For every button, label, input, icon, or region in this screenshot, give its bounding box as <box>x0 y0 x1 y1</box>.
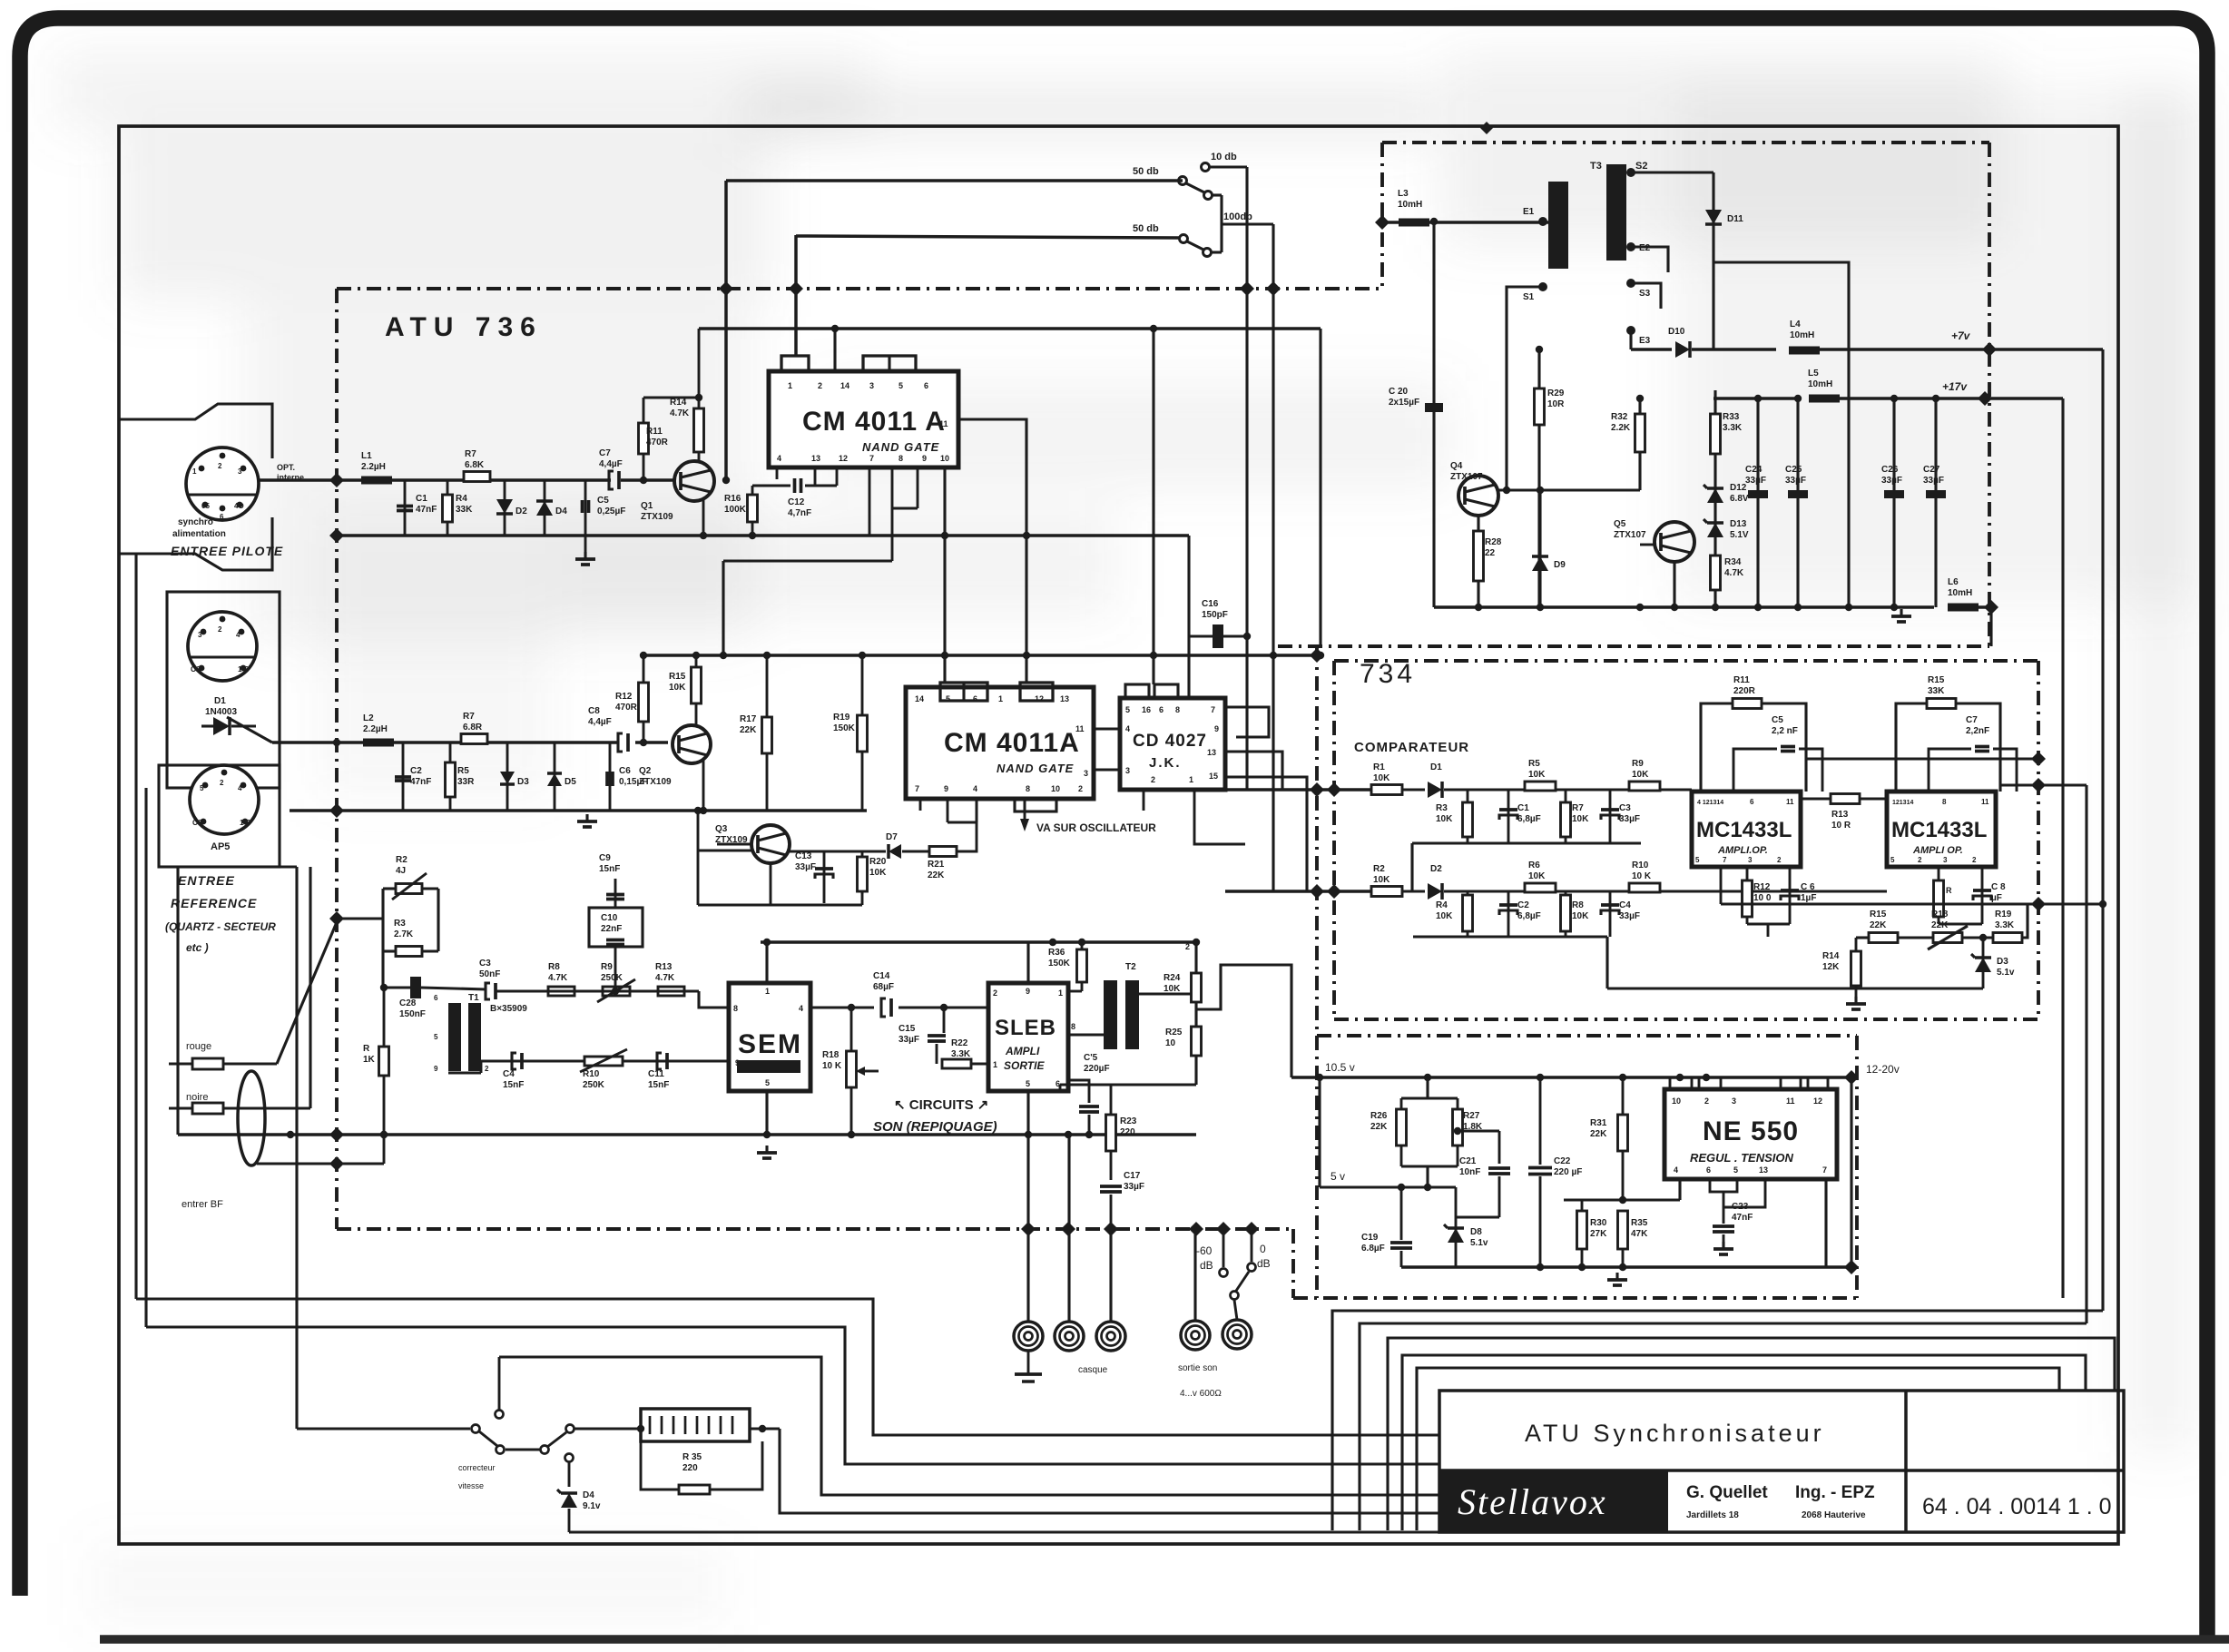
svg-text:8: 8 <box>1942 798 1947 806</box>
svg-text:11: 11 <box>1075 724 1085 733</box>
svg-text:6.8µF: 6.8µF <box>1361 1244 1385 1254</box>
svg-text:REGUL . TENSION: REGUL . TENSION <box>1690 1151 1793 1165</box>
svg-text:1: 1 <box>192 467 197 476</box>
inductor L4 10mH <box>1789 347 1820 355</box>
svg-text:10K: 10K <box>1528 871 1546 881</box>
wire y836 to right <box>1806 757 2038 760</box>
svg-text:R6: R6 <box>1528 860 1540 870</box>
svg-text:R19: R19 <box>1995 910 2012 919</box>
svg-text:R4: R4 <box>456 494 467 504</box>
svg-text:ZTX109: ZTX109 <box>641 512 673 522</box>
svg-text:D10: D10 <box>1668 327 1685 337</box>
capacitor C2 47nF <box>402 742 405 811</box>
vertical bus x1407 lower <box>1272 655 1274 891</box>
diode D2 <box>504 480 506 536</box>
svg-text:R5: R5 <box>457 766 469 776</box>
svg-text:22K: 22K <box>1590 1129 1607 1139</box>
capacitor C13 33uF <box>823 851 826 903</box>
svg-text:15nF: 15nF <box>648 1080 669 1090</box>
svg-text:2.7K: 2.7K <box>394 929 414 939</box>
svg-text:C2: C2 <box>1517 900 1529 910</box>
capacitor C3 50nF <box>486 983 490 999</box>
resistor R3 2.7K <box>383 949 396 952</box>
capacitor C5 2.2nF (734) <box>1733 749 1777 792</box>
potentiometer R18 10K (SEM) <box>850 1008 853 1051</box>
resistor R35 220 parallel <box>641 1441 679 1490</box>
svg-text:dB: dB <box>1200 1259 1213 1272</box>
resistor R29 10R <box>1537 349 1540 607</box>
svg-text:D1: D1 <box>1430 762 1442 772</box>
svg-text:Ing. - EPZ: Ing. - EPZ <box>1795 1483 1875 1502</box>
svg-text:22K: 22K <box>1870 920 1887 930</box>
resistor R7 6.8K <box>464 472 490 482</box>
DIN connector 2 with D1 <box>167 592 280 788</box>
svg-text:3: 3 <box>1943 856 1948 864</box>
svg-text:C 20: C 20 <box>1389 387 1409 397</box>
svg-text:100K: 100K <box>724 505 747 515</box>
svg-text:3: 3 <box>238 467 242 476</box>
svg-text:10K: 10K <box>1572 814 1589 824</box>
svg-text:D4: D4 <box>583 1490 594 1500</box>
svg-text:10: 10 <box>1672 1096 1681 1106</box>
svg-text:10mH: 10mH <box>1398 200 1422 210</box>
attenuator verticals to card <box>1245 167 1248 790</box>
row wire y1169 <box>448 1072 481 1075</box>
svg-text:1N4003: 1N4003 <box>205 707 237 717</box>
svg-text:6,8µF: 6,8µF <box>1517 911 1541 921</box>
comparator row1 wire <box>1225 788 1371 792</box>
svg-text:33µF: 33µF <box>898 1035 919 1045</box>
svg-text:10K: 10K <box>1572 911 1589 921</box>
svg-text:L5: L5 <box>1808 369 1819 379</box>
svg-text:2: 2 <box>485 1065 489 1073</box>
svg-text:470R: 470R <box>646 438 669 447</box>
svg-text:VA SUR OSCILLATEUR: VA SUR OSCILLATEUR <box>1036 821 1156 834</box>
svg-text:Q1: Q1 <box>641 501 653 511</box>
resistor R17 22K <box>766 655 769 811</box>
svg-text:D3: D3 <box>517 777 529 787</box>
diamond at L3 <box>1375 215 1389 230</box>
T3 terminal dots <box>1538 217 1547 226</box>
svg-text:D12: D12 <box>1730 483 1747 493</box>
resistor R14 12K <box>1855 938 1858 951</box>
svg-text:R 35: R 35 <box>682 1452 702 1462</box>
svg-text:1 O: 1 O <box>240 819 251 827</box>
wire bus y362 <box>699 327 1321 330</box>
svg-text:NAND GATE: NAND GATE <box>862 440 939 454</box>
vertical x800 to ch1 rail <box>724 181 728 480</box>
svg-text:64 . 04 . 0014 1 . 0: 64 . 04 . 0014 1 . 0 <box>1922 1494 2112 1519</box>
svg-text:L4: L4 <box>1790 320 1801 329</box>
resistor R1 10K <box>1371 785 1402 795</box>
svg-text:10K: 10K <box>1164 984 1181 994</box>
svg-text:9.1v: 9.1v <box>583 1501 601 1511</box>
svg-text:5: 5 <box>200 784 204 792</box>
svg-text:6: 6 <box>434 994 438 1002</box>
svg-text:250K: 250K <box>583 1080 605 1090</box>
svg-text:50 db: 50 db <box>1133 166 1159 177</box>
wire y865 to right <box>2000 783 2087 786</box>
svg-text:4: 4 <box>799 1004 803 1013</box>
svg-text:13: 13 <box>1207 748 1216 757</box>
svg-text:1 O: 1 O <box>238 665 250 674</box>
svg-text:10 db: 10 db <box>1211 152 1237 162</box>
svg-text:10K: 10K <box>1373 773 1390 783</box>
svg-text:rouge: rouge <box>186 1041 211 1052</box>
capacitor C6 0.15uF <box>609 742 612 811</box>
svg-text:3.3K: 3.3K <box>951 1049 971 1059</box>
resistor R8 10K (734) <box>1565 891 1567 937</box>
svg-text:NE 550: NE 550 <box>1703 1116 1799 1146</box>
ground regulator rail <box>1615 1273 1618 1280</box>
resistor R24 10K <box>1194 942 1197 973</box>
svg-text:C11: C11 <box>648 1069 664 1079</box>
svg-text:12: 12 <box>839 454 848 463</box>
svg-text:6.8R: 6.8R <box>463 723 483 733</box>
resistor R22 3.3K <box>942 1059 971 1068</box>
svg-text:2: 2 <box>220 779 224 787</box>
svg-text:3.3K: 3.3K <box>1723 423 1743 433</box>
svg-text:5.1v: 5.1v <box>1470 1238 1488 1248</box>
svg-text:R28: R28 <box>1485 537 1502 547</box>
svg-text:10mH: 10mH <box>1808 379 1832 389</box>
svg-text:R19: R19 <box>833 713 850 723</box>
svg-text:4...v 600Ω: 4...v 600Ω <box>1180 1389 1222 1399</box>
capacitor C19 68uF <box>1400 1187 1403 1240</box>
resistor R15 22K (bottom) <box>1869 933 1898 943</box>
svg-text:10.5 v: 10.5 v <box>1325 1061 1355 1074</box>
svg-text:C13: C13 <box>795 851 812 861</box>
svg-text:R36: R36 <box>1048 948 1065 958</box>
svg-text:ZTX107: ZTX107 <box>1450 472 1483 482</box>
svg-text:6: 6 <box>1159 705 1164 714</box>
resistor R16 100K <box>748 495 758 522</box>
svg-text:10nF: 10nF <box>1459 1167 1480 1177</box>
svg-text:Q2: Q2 <box>639 766 652 776</box>
resistor R9 250K pot <box>603 987 630 996</box>
wire S1 <box>1507 287 1543 490</box>
svg-text:2,2nF: 2,2nF <box>1966 726 1989 736</box>
svg-text:D13: D13 <box>1730 519 1747 529</box>
svg-text:1: 1 <box>993 1060 997 1069</box>
svg-text:33µF: 33µF <box>1745 476 1766 486</box>
CM2 bottom tab <box>1015 799 1056 811</box>
capacitor C4 15nF (SEM) <box>512 1053 516 1069</box>
svg-text:33µF: 33µF <box>1619 911 1640 921</box>
resistor R20 10K <box>861 851 864 894</box>
svg-text:+7v: +7v <box>1951 329 1971 342</box>
svg-text:13: 13 <box>1759 1165 1768 1175</box>
svg-text:10mH: 10mH <box>1948 588 1972 598</box>
svg-text:ENTREE: ENTREE <box>178 873 235 888</box>
svg-text:R14: R14 <box>670 398 687 408</box>
svg-text:C'5: C'5 <box>1084 1053 1098 1063</box>
dash-dot boundary 736 bottom <box>337 1227 1293 1231</box>
svg-text:T1: T1 <box>468 993 479 1003</box>
resistor R10 250K pot <box>584 1057 623 1066</box>
resistor R5 33R <box>449 742 452 811</box>
wire L5 rail <box>1713 397 1795 400</box>
resistor R 1K <box>383 988 386 1047</box>
svg-text:9: 9 <box>1214 724 1219 733</box>
svg-text:CD 4027: CD 4027 <box>1133 732 1207 751</box>
diode D2 (734) <box>1428 883 1442 900</box>
svg-text:8: 8 <box>1175 705 1180 714</box>
vertical x877 to pin tab <box>794 235 798 356</box>
CM4011A top tabs <box>781 356 809 371</box>
svg-text:734: 734 <box>1360 659 1416 689</box>
svg-text:R8: R8 <box>548 962 560 972</box>
wire rouge to dashdot <box>223 1062 277 1065</box>
svg-text:2.2µH: 2.2µH <box>363 724 388 734</box>
capacitor C23 47nF <box>1723 1207 1725 1224</box>
svg-text:33µF: 33µF <box>1619 814 1640 824</box>
transistor Q5 ZTX107 <box>1655 522 1694 562</box>
transformer T2 <box>1104 980 1117 1049</box>
SEM top pin to rail <box>765 942 768 983</box>
inductor L3 10mH <box>1399 219 1429 227</box>
svg-text:R12: R12 <box>1753 882 1771 892</box>
svg-text:220: 220 <box>682 1463 698 1473</box>
SEM pin4 wire to C14 <box>810 1006 874 1008</box>
svg-text:O3: O3 <box>191 665 201 674</box>
DIN connector AP5 <box>159 765 280 867</box>
svg-text:D11: D11 <box>1727 214 1743 224</box>
svg-text:15nF: 15nF <box>599 864 620 874</box>
svg-text:C7: C7 <box>1966 715 1978 725</box>
label VA SUR OSCILLATEUR <box>1024 799 1026 824</box>
svg-text:C25: C25 <box>1785 465 1802 475</box>
svg-text:3.3K: 3.3K <box>1995 920 2015 930</box>
svg-text:R23: R23 <box>1120 1116 1137 1126</box>
svg-text:4.7K: 4.7K <box>548 973 568 983</box>
svg-text:R35: R35 <box>1631 1218 1648 1228</box>
svg-text:4,4µF: 4,4µF <box>588 717 612 727</box>
svg-text:9: 9 <box>1026 987 1030 996</box>
svg-text:4: 4 <box>1125 724 1130 733</box>
transformer T3 <box>1548 182 1568 269</box>
svg-text:2: 2 <box>218 462 222 470</box>
svg-text:10K: 10K <box>1528 770 1546 780</box>
wire S2 to D11 <box>1631 171 1713 173</box>
svg-text:R29: R29 <box>1547 388 1565 398</box>
svg-text:22K: 22K <box>928 870 945 880</box>
svg-text:R5: R5 <box>1528 759 1540 769</box>
svg-text:05: 05 <box>201 502 210 510</box>
wire y996 <box>1721 902 2103 905</box>
wire bus y259 <box>796 236 1179 238</box>
svg-text:5: 5 <box>434 1033 438 1041</box>
svg-text:R15: R15 <box>1928 675 1945 685</box>
svg-text:etc ): etc ) <box>186 941 209 954</box>
svg-text:R9: R9 <box>1632 759 1644 769</box>
op-amp U5 MC1433L #2 <box>1887 792 1996 867</box>
NE550 top tabs <box>1670 1077 1692 1089</box>
svg-text:C 6: C 6 <box>1801 882 1815 892</box>
svg-text:SLEB: SLEB <box>995 1016 1056 1040</box>
IC U1 CM4011A nand gate <box>769 371 958 467</box>
svg-text:4: 4 <box>777 454 781 463</box>
capacitor C14 68uF <box>881 998 886 1017</box>
svg-text:C24: C24 <box>1745 465 1763 475</box>
svg-text:sortie son: sortie son <box>1178 1363 1217 1373</box>
svg-text:R34: R34 <box>1724 557 1742 567</box>
svg-text:9: 9 <box>922 454 927 463</box>
svg-text:4O: 4O <box>234 502 244 510</box>
bottom bus wire A <box>136 1299 1439 1435</box>
resistor R36 150K <box>1081 942 1084 983</box>
transistor Q3 ZTX109 <box>751 825 790 863</box>
svg-text:R2: R2 <box>1373 864 1385 874</box>
svg-text:D1: D1 <box>214 696 226 706</box>
svg-text:SON (REPIQUAGE): SON (REPIQUAGE) <box>873 1119 997 1135</box>
svg-text:C21: C21 <box>1459 1156 1477 1166</box>
svg-text:11: 11 <box>1786 798 1794 806</box>
svg-text:R10: R10 <box>1632 860 1649 870</box>
potentiometer R18 22K <box>1933 933 1962 943</box>
svg-text:S1: S1 <box>1523 292 1535 302</box>
resistor R11 470R <box>643 398 645 458</box>
svg-text:R11: R11 <box>646 427 663 437</box>
inductor L1 22uH <box>361 477 392 485</box>
tie R11-R14 <box>643 397 699 399</box>
IC U7 SLEB ampli sortie <box>988 983 1068 1091</box>
CM1 pin7 down to rail <box>869 467 871 536</box>
svg-text:R15: R15 <box>669 672 686 682</box>
resistor R10 10K (734) <box>1629 883 1660 892</box>
transformer T1 <box>448 1003 461 1071</box>
resistor R7 10K (734) <box>1565 790 1567 843</box>
vertical x1271 bus <box>1152 329 1154 684</box>
svg-text:R11: R11 <box>1733 675 1750 685</box>
svg-text:C 8: C 8 <box>1991 882 2006 892</box>
svg-text:5 v: 5 v <box>1331 1170 1345 1183</box>
capacitor C5 0.25uF <box>584 480 587 536</box>
svg-text:J.K.: J.K. <box>1149 755 1182 771</box>
resistor R12 470R <box>643 655 645 742</box>
capacitor C8 4.4uF (series) <box>618 733 623 752</box>
svg-text:11: 11 <box>1981 798 1989 806</box>
svg-text:4: 4 <box>238 784 242 792</box>
zener diode D12 6.8V <box>1713 390 1716 607</box>
svg-text:D8: D8 <box>1470 1227 1482 1237</box>
svg-text:33K: 33K <box>1928 686 1945 696</box>
svg-text:L2: L2 <box>363 713 374 723</box>
svg-text:R10: R10 <box>583 1069 600 1079</box>
transistor Q4 ZTX107 <box>1458 476 1498 516</box>
svg-text:220R: 220R <box>1733 686 1756 696</box>
svg-text:10 K: 10 K <box>1632 871 1652 881</box>
svg-text:22K: 22K <box>1931 920 1949 930</box>
ground PSU <box>1900 609 1902 616</box>
svg-text:R13: R13 <box>655 962 673 972</box>
svg-text:R24: R24 <box>1164 973 1181 983</box>
svg-text:5.1v: 5.1v <box>1997 968 2015 978</box>
wire lower rail ch1 <box>337 534 1189 537</box>
svg-text:C6: C6 <box>619 766 631 776</box>
diode D3 <box>506 742 509 811</box>
svg-text:R9: R9 <box>601 962 613 972</box>
svg-text:10: 10 <box>1165 1038 1176 1048</box>
IC U2 CM4011A nand gate 2 <box>906 687 1094 799</box>
svg-text:C28: C28 <box>399 998 417 1008</box>
resistor R15 10K <box>695 655 698 725</box>
wire S3 loop <box>1631 283 1661 309</box>
svg-text:6.8V: 6.8V <box>1730 494 1749 504</box>
wire loop x2037 <box>1713 262 1849 607</box>
CD4027 right small loop <box>1225 707 1269 737</box>
svg-text:REFERENCE: REFERENCE <box>171 896 257 910</box>
svg-text:COMPARATEUR: COMPARATEUR <box>1354 740 1469 755</box>
dash-dot boundary ATU 736 card <box>337 287 1382 290</box>
capacitor C3 33uF <box>1609 790 1612 843</box>
svg-text:dB: dB <box>1257 1257 1271 1270</box>
svg-text:33R: 33R <box>457 777 475 787</box>
svg-text:D3: D3 <box>1997 957 2008 967</box>
svg-text:50 db: 50 db <box>1133 223 1159 234</box>
svg-text:10: 10 <box>1051 784 1060 793</box>
svg-text:22K: 22K <box>1370 1122 1388 1132</box>
svg-text:vitesse: vitesse <box>458 1481 484 1490</box>
svg-text:R14: R14 <box>1822 951 1840 961</box>
svg-text:8: 8 <box>898 454 903 463</box>
diode D4 <box>544 480 546 536</box>
junction diamond on border <box>1480 122 1493 134</box>
wire AP5 to speed switch <box>295 867 298 1429</box>
capacitor C11 15nF <box>657 1053 662 1069</box>
svg-text:0,25µF: 0,25µF <box>597 506 625 516</box>
svg-text:33µF: 33µF <box>1881 476 1902 486</box>
vertical x1310 from ch1 rail down to CD4027 <box>1187 536 1190 698</box>
svg-text:D2: D2 <box>1430 864 1442 874</box>
CD4027 right pin wires <box>1225 752 1282 790</box>
svg-text:AP5: AP5 <box>211 841 230 852</box>
svg-text:↖ CIRCUITS ↗: ↖ CIRCUITS ↗ <box>894 1097 988 1113</box>
zener D8 5.1v <box>1455 1187 1458 1267</box>
resistors R30 27K R35 47K <box>1581 1200 1584 1211</box>
svg-text:4: 4 <box>1674 1165 1678 1175</box>
svg-text:13: 13 <box>811 454 820 463</box>
svg-text:noire: noire <box>186 1092 208 1103</box>
SLEB pin5 down <box>1026 1091 1029 1229</box>
svg-text:R27: R27 <box>1463 1111 1480 1121</box>
wire 10.5v rail <box>1291 1076 1851 1079</box>
wire 734 lower <box>1607 987 1983 989</box>
svg-text:6: 6 <box>924 381 928 390</box>
resistor R14 4.7K <box>694 408 704 452</box>
svg-text:8: 8 <box>1026 784 1030 793</box>
capacitor C16 150pF <box>1189 634 1247 637</box>
wire E3 rail <box>1629 330 1632 349</box>
svg-text:T2: T2 <box>1125 962 1136 972</box>
svg-text:5: 5 <box>1026 1079 1030 1088</box>
svg-text:AMPLI OP.: AMPLI OP. <box>1912 845 1963 856</box>
svg-text:C19: C19 <box>1361 1233 1379 1243</box>
svg-text:4,4µF: 4,4µF <box>599 459 623 469</box>
svg-text:R7: R7 <box>463 712 475 722</box>
wires to jacks <box>1026 1229 1029 1322</box>
capacitor C2 6.8uF (734) <box>1507 891 1510 937</box>
speed selector stepped resistor <box>574 1427 641 1430</box>
PSU bottom rail <box>1434 605 1934 609</box>
inductor L6 10mH <box>1948 604 1979 612</box>
wires CM2 to CD4027 <box>1094 727 1120 730</box>
SEM bottom pin to ground <box>765 1091 768 1135</box>
resistor R6 10K (734) <box>1525 883 1556 892</box>
zener D4 9.1v <box>565 1454 574 1462</box>
wire 12-20v down <box>1850 1077 1852 1267</box>
svg-text:33µF: 33µF <box>1124 1182 1144 1192</box>
